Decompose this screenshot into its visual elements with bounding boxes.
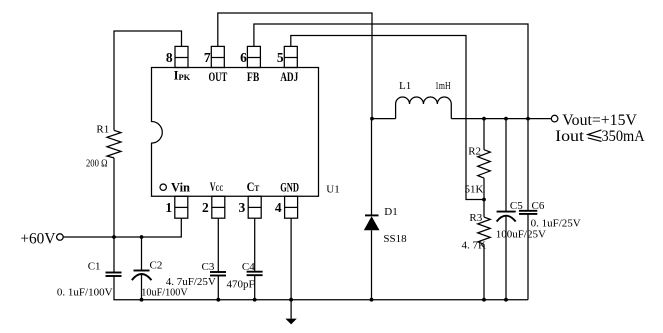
svg-text:1: 1 (165, 200, 172, 215)
svg-text:C4: C4 (242, 261, 255, 273)
wire C6 to ground rail (527, 214, 529, 300)
wire output rail to R2 (483, 119, 485, 150)
svg-text:4: 4 (275, 200, 282, 215)
capacitor C2 electrolytic (132, 271, 152, 281)
wire C1 to ground rail (113, 276, 115, 300)
svg-text:3: 3 (238, 200, 245, 215)
svg-text:C1: C1 (88, 260, 101, 272)
pin 5 box (284, 46, 297, 67)
svg-text:R3: R3 (469, 212, 482, 224)
svg-text:ADJ: ADJ (280, 70, 298, 84)
svg-text:470pF: 470pF (227, 279, 255, 291)
junction C3 on ground rail (216, 298, 220, 302)
resistor R2 (478, 150, 491, 178)
svg-text:C6: C6 (532, 200, 545, 212)
svg-text:8: 8 (166, 50, 173, 65)
pin 6 box (247, 46, 260, 67)
svg-text:4. 7uF/25V: 4. 7uF/25V (166, 276, 216, 288)
svg-text:L1: L1 (399, 80, 411, 92)
junction C2 on +60V line (140, 235, 144, 239)
pin 7 box (211, 46, 224, 67)
svg-text:SS18: SS18 (383, 233, 407, 245)
svg-text:Vin: Vin (171, 180, 190, 194)
svg-text:Vout=+15V: Vout=+15V (562, 112, 637, 129)
junction C5 on ground rail (504, 298, 508, 302)
junction pin4 on ground rail (289, 298, 293, 302)
svg-text:C2: C2 (150, 260, 163, 272)
pin 1 box (175, 196, 188, 218)
svg-text:D1: D1 (384, 206, 397, 218)
svg-text:R2: R2 (468, 146, 481, 158)
svg-text:OUT: OUT (209, 70, 228, 84)
capacitor C1 (106, 273, 122, 277)
svg-text:6: 6 (240, 50, 247, 65)
wire pin 3 CT to C4 (254, 218, 256, 272)
wire +60V node to C1 (113, 237, 115, 273)
junction R3 on ground rail (482, 298, 486, 302)
junction FB/C6 on output rail (526, 117, 530, 121)
wire C5 to ground rail (505, 216, 507, 300)
wire +60V terminal to pin 1 Vin (63, 218, 181, 237)
pin 2 box (212, 196, 225, 218)
resistor R1 (107, 130, 121, 158)
wire pin 5 ADJ to divider node (291, 36, 484, 200)
svg-text:4. 7K: 4. 7K (462, 240, 487, 252)
svg-text:100uF/25V: 100uF/25V (496, 228, 546, 240)
svg-text:CT: CT (247, 180, 260, 194)
svg-text:10uF/100V: 10uF/100V (141, 286, 187, 298)
wire pin 6 FB to output rail (254, 24, 528, 119)
node Iout text (555, 128, 645, 145)
svg-text:0. 1uF/100V: 0. 1uF/100V (57, 286, 113, 298)
wire switch node to L1 (372, 118, 396, 120)
svg-text:IPK: IPK (174, 69, 191, 83)
pin 8 box (175, 46, 188, 67)
ground symbol (285, 300, 296, 325)
svg-text:0. 1uF/25V: 0. 1uF/25V (531, 218, 581, 230)
svg-text:5: 5 (277, 50, 284, 65)
capacitor C6 (519, 211, 537, 214)
junction C2 on ground rail (140, 298, 144, 302)
svg-text:7: 7 (204, 50, 211, 65)
wire pin 4 GND to ground rail (290, 218, 292, 300)
junction C4 on ground rail (253, 298, 257, 302)
svg-text:1mH: 1mH (435, 80, 451, 92)
wire divider node to R3 (483, 200, 485, 218)
junction R2 on output rail (482, 117, 486, 121)
IC U1 body with notch (152, 68, 319, 197)
svg-text:GND: GND (280, 180, 299, 194)
junction divider node (482, 198, 486, 202)
wire pin 7 OUT to switch node (218, 13, 372, 119)
svg-text:200 Ω: 200 Ω (86, 158, 108, 170)
wire C2 to ground rail (141, 274, 143, 300)
junction C5 on output rail (504, 117, 508, 121)
wire R2 bottom to divider node (483, 178, 485, 199)
svg-text:Iout: Iout (555, 128, 585, 145)
wire pin 8 Ipk to R1 top (114, 31, 182, 130)
svg-text:2: 2 (202, 200, 209, 215)
wire output rail to C6 (527, 119, 529, 211)
wire output rail to C5 (505, 119, 507, 212)
terminal +60V (57, 234, 64, 241)
terminal Vout (551, 115, 558, 122)
IC U1 pin-1 marker circle (160, 184, 166, 190)
svg-text:FB: FB (247, 70, 259, 84)
capacitor C4 (247, 272, 263, 276)
svg-text:+60V: +60V (20, 230, 55, 247)
svg-text:51K: 51K (465, 183, 484, 195)
capacitor C5 electrolytic (497, 212, 516, 222)
pin 4 box (285, 196, 298, 218)
wire R3 bottom to ground rail (483, 244, 485, 300)
svg-text:R1: R1 (96, 124, 109, 136)
capacitor C3 (210, 272, 226, 276)
inductor L1 (396, 97, 452, 119)
wire pin 2 Vcc to C3 (217, 218, 219, 272)
diode D1 (364, 119, 380, 300)
svg-text:U1: U1 (326, 184, 339, 196)
wire C4 to ground rail (254, 275, 256, 300)
pin 3 box (248, 196, 261, 218)
junction switch node (370, 117, 374, 121)
svg-text:VCC: VCC (210, 180, 223, 194)
wire +60V node to C2 (141, 237, 143, 271)
wire L1 to Vout terminal (451, 118, 551, 120)
svg-text:C3: C3 (202, 261, 215, 273)
svg-text:350mA: 350mA (602, 128, 645, 145)
wire C3 to ground rail (217, 276, 219, 300)
resistor R3 (478, 217, 491, 244)
junction R1/C1 on +60V line (112, 235, 116, 239)
wire R1 bottom to +60V node (113, 158, 115, 237)
junction D1 on ground rail (370, 298, 374, 302)
ground rail (113, 299, 528, 301)
